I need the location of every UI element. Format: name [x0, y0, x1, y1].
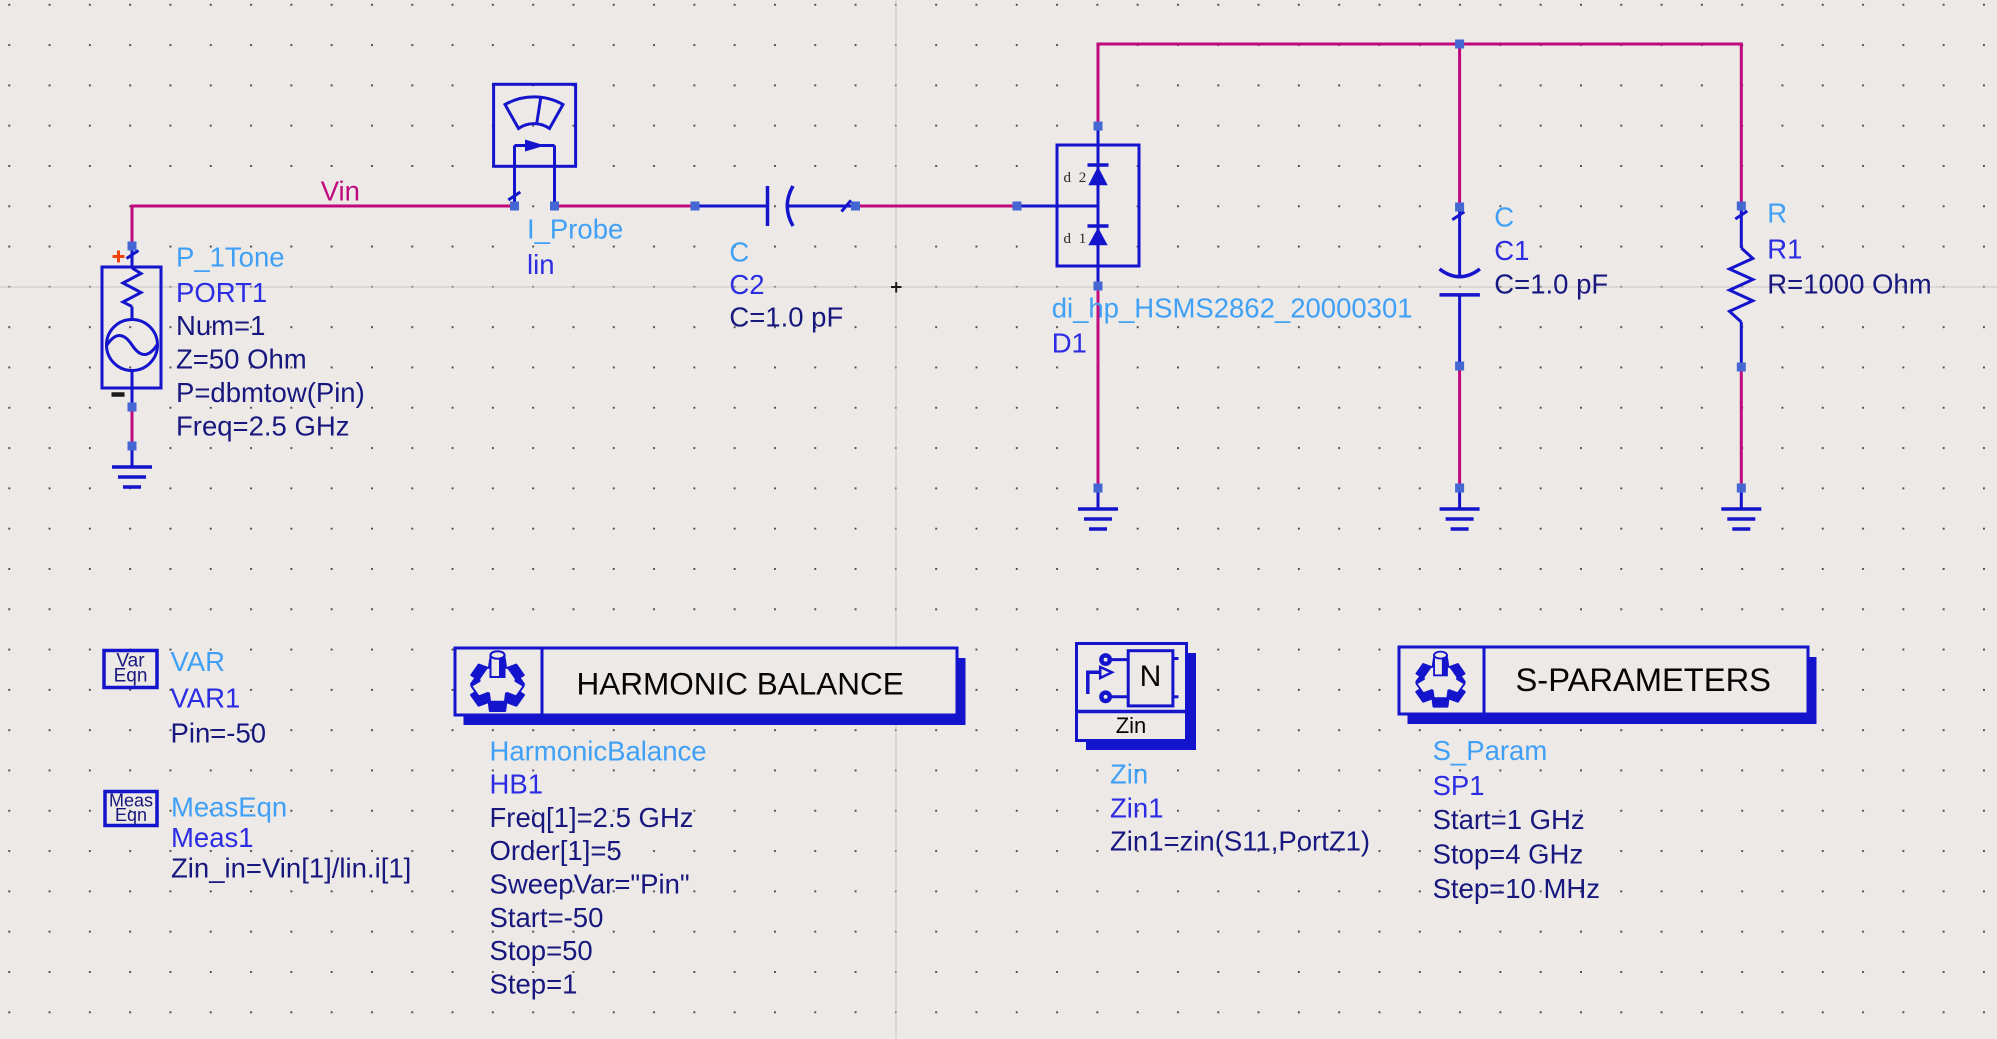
- ground (D1): [1078, 488, 1118, 529]
- wire: port vertical drop: [131, 205, 134, 247]
- wire: top rail: [1097, 43, 1743, 46]
- wire: D1 top riser: [1097, 44, 1100, 126]
- wire: C1 branch riser: [1458, 44, 1461, 207]
- svg-text:lin: lin: [527, 249, 555, 280]
- wire: R1 to ground: [1740, 367, 1743, 488]
- svg-text:P=dbmtow(Pin): P=dbmtow(Pin): [176, 377, 365, 408]
- svg-text:Zin: Zin: [1116, 713, 1147, 738]
- svg-text:Meas1: Meas1: [171, 822, 254, 853]
- svg-text:Zin_in=Vin[1]/lin.i[1]: Zin_in=Vin[1]/lin.i[1]: [171, 853, 411, 884]
- svg-text:Pin=-50: Pin=-50: [171, 718, 267, 749]
- svg-text:Eqn: Eqn: [115, 805, 147, 825]
- svg-text:Step=1: Step=1: [490, 969, 578, 1000]
- svg-text:Eqn: Eqn: [114, 666, 148, 687]
- VAR equation box: [104, 651, 157, 688]
- svg-text:SP1: SP1: [1433, 770, 1485, 801]
- svg-text:Step=10 MHz: Step=10 MHz: [1433, 873, 1600, 904]
- svg-text:Vin: Vin: [321, 176, 360, 207]
- svg-text:Order[1]=5: Order[1]=5: [490, 835, 622, 866]
- wire: C2 to D1: [855, 205, 1017, 208]
- svg-text:Stop=4 GHz: Stop=4 GHz: [1433, 839, 1584, 870]
- wire: D1 to ground: [1097, 286, 1100, 488]
- svg-text:S_Param: S_Param: [1433, 735, 1548, 766]
- svg-text:Stop=50: Stop=50: [490, 935, 593, 966]
- svg-text:C2: C2: [729, 269, 764, 300]
- svg-text:Zin: Zin: [1110, 759, 1148, 790]
- svg-text:Freq[1]=2.5 GHz: Freq[1]=2.5 GHz: [490, 802, 694, 833]
- capacitor C2: [695, 186, 855, 226]
- svg-text:Zin1=zin(S11,PortZ1): Zin1=zin(S11,PortZ1): [1110, 825, 1370, 856]
- svg-text:di_hp_HSMS2862_20000301: di_hp_HSMS2862_20000301: [1052, 293, 1413, 324]
- ground (R1): [1721, 488, 1761, 529]
- svg-text:HARMONIC BALANCE: HARMONIC BALANCE: [577, 665, 904, 701]
- svg-text:HarmonicBalance: HarmonicBalance: [490, 735, 707, 766]
- svg-text:Zin1: Zin1: [1110, 792, 1164, 823]
- svg-text:P_1Tone: P_1Tone: [176, 242, 285, 273]
- svg-text:N: N: [1140, 660, 1162, 693]
- ground (C1): [1440, 488, 1480, 529]
- svg-text:C=1.0 pF: C=1.0 pF: [729, 302, 843, 333]
- svg-text:R=1000 Ohm: R=1000 Ohm: [1767, 269, 1931, 300]
- svg-text:VAR: VAR: [171, 646, 226, 677]
- svg-text:C: C: [1494, 201, 1514, 232]
- HARMONIC BALANCE controller HB1: [455, 648, 966, 725]
- svg-text:HB1: HB1: [490, 769, 544, 800]
- S-PARAMETERS controller SP1: [1399, 647, 1817, 724]
- capacitor C1: [1440, 207, 1480, 366]
- diode pair D1 di_hp_HSMS2862: [1017, 126, 1139, 286]
- svg-text:R: R: [1767, 198, 1787, 229]
- ground (port): [112, 446, 152, 487]
- svg-text:SweepVar="Pin": SweepVar="Pin": [490, 869, 690, 900]
- resistor R1: [1730, 206, 1753, 367]
- svg-text:Start=-50: Start=-50: [490, 902, 604, 933]
- wire: R1 riser: [1740, 44, 1743, 206]
- svg-text:S-PARAMETERS: S-PARAMETERS: [1516, 661, 1771, 698]
- plus polarity mark: [113, 251, 125, 263]
- wire Vin: port to I_Probe: [132, 205, 514, 208]
- minus polarity mark: [112, 392, 125, 397]
- svg-text:Num=1: Num=1: [176, 310, 265, 341]
- svg-text:Z=50 Ohm: Z=50 Ohm: [176, 344, 307, 375]
- svg-text:I_Probe: I_Probe: [527, 213, 623, 244]
- svg-text:C=1.0 pF: C=1.0 pF: [1494, 269, 1608, 300]
- wire: I_Probe to C2: [555, 205, 695, 208]
- wire: C1 to ground: [1458, 366, 1461, 488]
- svg-text:Start=1 GHz: Start=1 GHz: [1433, 804, 1585, 835]
- svg-text:MeasEqn: MeasEqn: [171, 792, 287, 823]
- svg-text:PORT1: PORT1: [176, 277, 267, 308]
- svg-text:C: C: [729, 236, 749, 267]
- svg-text:VAR1: VAR1: [171, 683, 241, 714]
- MeasEqn box: [105, 790, 157, 825]
- node squares (junctions): [128, 40, 1746, 493]
- wire: port to ground: [131, 407, 134, 446]
- svg-text:d 1: d 1: [1064, 231, 1089, 247]
- port P_1Tone PORT1 source symbol: [102, 246, 161, 407]
- svg-text:d 2: d 2: [1064, 170, 1089, 186]
- Zin measurement block: [1077, 644, 1197, 751]
- svg-text:C1: C1: [1494, 235, 1529, 266]
- current probe I_Probe lin: [494, 84, 576, 206]
- svg-text:D1: D1: [1052, 327, 1087, 358]
- svg-text:R1: R1: [1767, 233, 1802, 264]
- svg-text:Freq=2.5 GHz: Freq=2.5 GHz: [176, 411, 349, 442]
